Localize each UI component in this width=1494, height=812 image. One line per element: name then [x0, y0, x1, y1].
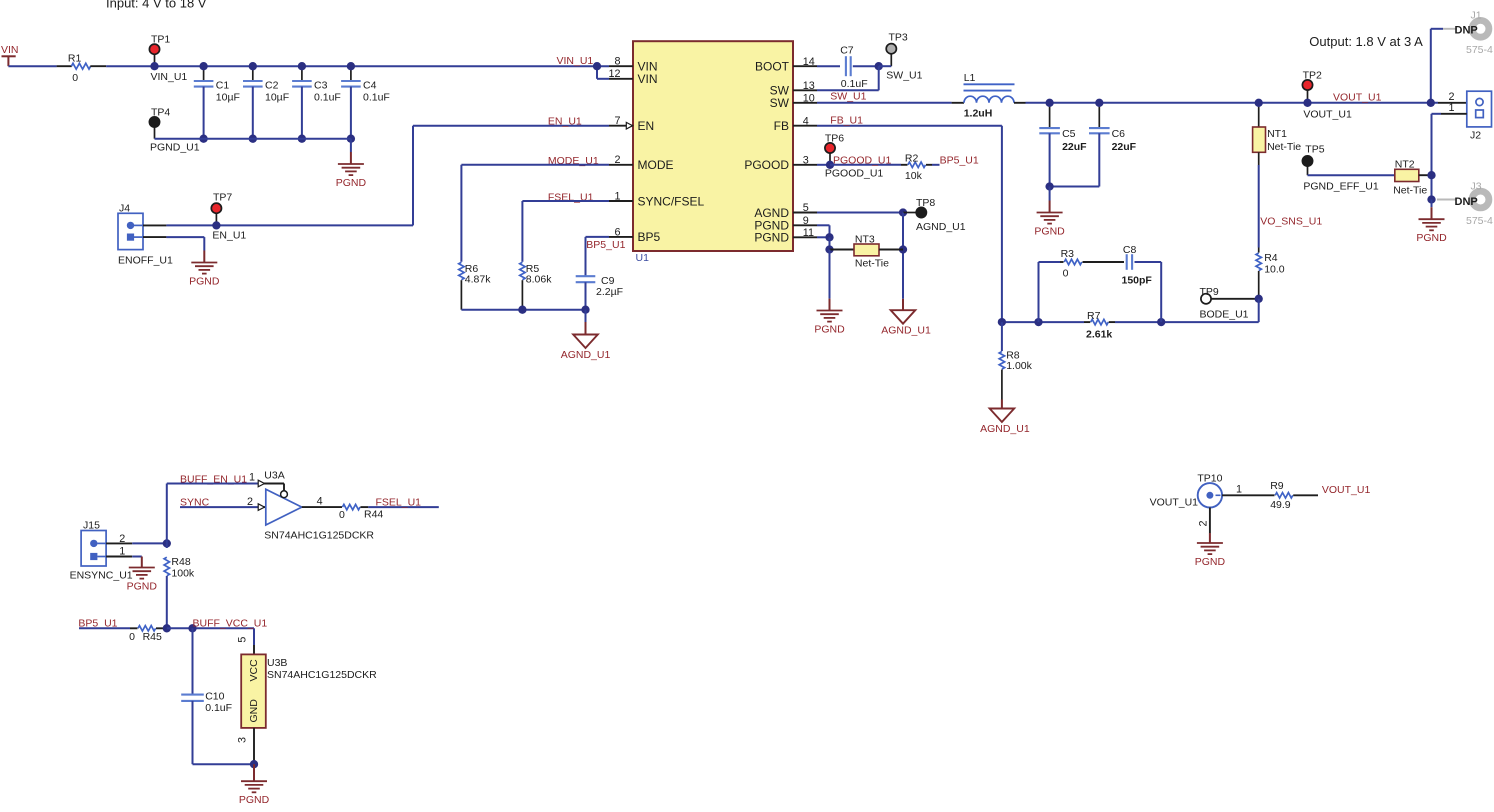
capacitor C6	[1089, 103, 1137, 187]
capacitor C7	[840, 44, 867, 90]
wire J2 pin2 stub	[1438, 102, 1476, 104]
svg-text:1.2uH: 1.2uH	[964, 108, 993, 120]
svg-text:13: 13	[803, 80, 815, 92]
wire U3A output	[302, 496, 342, 508]
resistor R44	[339, 504, 383, 521]
svg-text:PGND: PGND	[239, 794, 270, 806]
junction BUFF_VCC	[188, 624, 196, 632]
U1 pin 11 PGND	[754, 227, 817, 245]
net label VOUT_U1 tp10	[1322, 484, 1371, 496]
net label BUFF_VCC_U1	[193, 618, 268, 630]
junction U3B gnd	[250, 760, 258, 768]
wire C10 gnd	[193, 763, 255, 765]
svg-text:0: 0	[339, 509, 345, 521]
svg-text:J1: J1	[1471, 10, 1482, 22]
IC U1 body	[633, 41, 793, 264]
svg-text:10µF: 10µF	[216, 91, 240, 103]
junction pin12 drop	[593, 62, 601, 70]
net-tie NT3	[830, 234, 904, 270]
svg-text:U3A: U3A	[264, 470, 284, 482]
junction C6 top	[1095, 99, 1103, 107]
svg-text:10k: 10k	[905, 170, 923, 182]
wire SYNC	[180, 506, 266, 508]
svg-text:0.1uF: 0.1uF	[841, 78, 868, 90]
svg-text:R2: R2	[905, 152, 919, 164]
net label FB_U1	[830, 115, 863, 127]
wire FSEL_U1 out	[368, 506, 439, 508]
svg-text:J3: J3	[1471, 181, 1482, 193]
wire PGND pin9	[817, 225, 830, 237]
junction J15	[163, 539, 171, 547]
ground PGND TP10	[1195, 533, 1226, 568]
net label EN_U1	[548, 116, 582, 128]
net label BP5_U1 pgood	[940, 154, 979, 166]
resistor R6	[459, 262, 492, 310]
wire SW drop to pin13	[817, 66, 879, 90]
svg-text:PGOOD_U1: PGOOD_U1	[825, 168, 884, 180]
net label BUFF_EN_U1	[180, 474, 247, 486]
buffer U3A	[264, 470, 374, 542]
svg-text:AGND_U1: AGND_U1	[561, 349, 611, 361]
svg-text:1: 1	[1236, 484, 1242, 496]
svg-text:4: 4	[317, 496, 323, 508]
svg-text:4: 4	[803, 115, 809, 127]
svg-text:9: 9	[803, 215, 809, 227]
resistor R45	[129, 626, 167, 643]
testpoint TP6	[825, 133, 884, 180]
wire R4 to R7 bus	[1161, 299, 1259, 322]
wire BP5 buf	[79, 627, 130, 629]
svg-text:22uF: 22uF	[1062, 141, 1087, 153]
net label SW_U1	[830, 90, 866, 102]
svg-text:FSEL_U1: FSEL_U1	[376, 497, 422, 509]
wire PGOOD	[817, 164, 830, 166]
svg-text:3: 3	[237, 737, 249, 743]
svg-text:11: 11	[803, 227, 814, 239]
U1 pin 3 PGOOD	[744, 154, 817, 172]
U1 pin 5 AGND	[754, 202, 817, 220]
resistor R8	[999, 322, 1032, 399]
svg-text:Output: 1.8 V at 3 A: Output: 1.8 V at 3 A	[1309, 34, 1423, 49]
svg-text:2: 2	[1198, 520, 1210, 526]
U1 pin 8 VIN	[609, 56, 658, 74]
svg-text:R3: R3	[1061, 248, 1075, 260]
svg-text:TP1: TP1	[151, 34, 170, 46]
junction C3 bottom	[298, 135, 306, 143]
U1 pin 10 SW	[770, 92, 817, 110]
junction TP1	[150, 62, 158, 70]
wire TP10 pin1	[1222, 484, 1274, 496]
wire PGND pin11	[817, 236, 830, 238]
svg-text:FB_U1: FB_U1	[830, 115, 863, 127]
capacitor C2	[243, 66, 289, 139]
wire J4 pin2 stub	[143, 224, 166, 226]
svg-text:575-4: 575-4	[1466, 215, 1493, 227]
testpoint TP7	[211, 192, 246, 242]
wire R7 left bus	[1002, 321, 1084, 323]
svg-text:1: 1	[614, 190, 620, 202]
svg-text:VOUT_U1: VOUT_U1	[1150, 497, 1199, 509]
svg-text:5: 5	[237, 637, 249, 643]
svg-text:R44: R44	[364, 509, 383, 521]
svg-text:ENOFF_U1: ENOFF_U1	[118, 255, 173, 267]
svg-text:C5: C5	[1062, 128, 1076, 140]
svg-text:TP10: TP10	[1197, 473, 1222, 485]
svg-text:10µF: 10µF	[265, 91, 289, 103]
svg-text:VO_SNS_U1: VO_SNS_U1	[1260, 216, 1322, 228]
svg-text:0.1uF: 0.1uF	[363, 91, 390, 103]
svg-text:R4: R4	[1264, 252, 1278, 264]
junction NT3 left	[825, 245, 833, 253]
svg-text:0: 0	[129, 631, 135, 643]
svg-text:DNP: DNP	[1455, 196, 1478, 208]
svg-text:1: 1	[119, 545, 125, 557]
svg-text:VOUT_U1: VOUT_U1	[1322, 484, 1371, 496]
svg-text:C2: C2	[265, 80, 279, 92]
svg-text:R7: R7	[1087, 310, 1101, 322]
svg-text:C4: C4	[363, 80, 377, 92]
svg-text:49.9: 49.9	[1270, 499, 1291, 511]
wire BP5 to C9	[586, 237, 610, 276]
note: output rating	[1309, 34, 1423, 49]
ground PGND J3	[1416, 200, 1447, 245]
svg-text:J2: J2	[1470, 130, 1481, 142]
wire to pin 12	[597, 66, 609, 79]
svg-text:PGOOD_U1: PGOOD_U1	[833, 154, 892, 166]
svg-text:TP4: TP4	[151, 107, 170, 119]
svg-text:EN: EN	[638, 119, 655, 133]
connector J15	[70, 520, 133, 582]
svg-text:PGOOD: PGOOD	[744, 158, 789, 172]
svg-text:R48: R48	[171, 556, 190, 568]
svg-text:4.87k: 4.87k	[465, 274, 491, 286]
junction NT3 right	[899, 245, 907, 253]
junction VOUT J1	[1427, 99, 1435, 107]
wire J15 pin2	[106, 542, 167, 544]
capacitor C5	[1039, 103, 1087, 187]
net-tie NT1	[1253, 103, 1302, 165]
testpoint TP3	[879, 32, 923, 82]
inductor L1	[952, 72, 1026, 120]
wire VIN_U1 rail	[106, 65, 609, 67]
svg-text:TP8: TP8	[916, 197, 935, 209]
svg-text:PGND: PGND	[754, 231, 789, 245]
svg-text:C10: C10	[205, 691, 224, 703]
U1 pin 7 EN	[609, 115, 654, 133]
net label VIN_U1 at pin8	[557, 55, 594, 67]
capacitor C1	[194, 66, 240, 139]
svg-text:R9: R9	[1270, 480, 1284, 492]
net label BP5_U1 buf	[78, 618, 117, 630]
svg-text:VCC: VCC	[248, 659, 260, 682]
net label FSEL_U1 out	[376, 497, 422, 509]
power port VIN	[1, 44, 19, 66]
ground AGND_U1 C9	[561, 310, 611, 361]
svg-text:C8: C8	[1123, 244, 1137, 256]
resistor R9	[1270, 480, 1318, 511]
resistor R3	[1060, 248, 1124, 280]
junction TP7	[212, 221, 220, 229]
svg-text:AGND_U1: AGND_U1	[881, 325, 931, 337]
svg-text:1: 1	[1448, 102, 1454, 114]
junction R5 bottom	[518, 306, 526, 314]
wire PGND_U1 bus	[155, 138, 351, 140]
svg-text:8: 8	[614, 56, 620, 68]
svg-text:VOUT_U1: VOUT_U1	[1303, 109, 1352, 121]
svg-text:TP2: TP2	[1303, 70, 1322, 82]
junction C2 bottom	[249, 135, 257, 143]
U3A pin1 marker	[249, 472, 265, 487]
svg-text:PGND_U1: PGND_U1	[150, 142, 200, 154]
svg-text:ENSYNC_U1: ENSYNC_U1	[70, 570, 133, 582]
U1 pin 13 SW	[770, 80, 817, 98]
junction R7 bus right	[1157, 318, 1165, 326]
ground PGND NT3	[814, 250, 845, 336]
wire EN_U1 riser	[413, 126, 609, 226]
testpoint TP9	[1200, 286, 1259, 321]
wire AGND riser	[902, 213, 904, 299]
svg-text:NT2: NT2	[1395, 159, 1415, 171]
svg-text:PGND: PGND	[1195, 556, 1226, 568]
svg-text:2.2µF: 2.2µF	[596, 286, 623, 298]
junction C4 top	[347, 62, 355, 70]
wire PGOOD to R2	[830, 164, 901, 166]
svg-text:U3B: U3B	[267, 657, 287, 669]
svg-text:BP5: BP5	[638, 230, 661, 244]
svg-text:R45: R45	[143, 631, 162, 643]
wire BOOT	[817, 65, 840, 67]
U1 pin 9 PGND	[754, 215, 817, 233]
svg-text:1: 1	[249, 472, 255, 484]
resistor R4	[1256, 248, 1285, 299]
junction TP9	[1255, 295, 1263, 303]
net label MODE_U1	[548, 155, 599, 167]
wire AGND bus R5R6C9	[461, 309, 585, 311]
junction pin11	[825, 233, 833, 241]
svg-text:TP7: TP7	[213, 192, 232, 204]
capacitor C10	[181, 628, 232, 764]
svg-text:TP3: TP3	[889, 32, 908, 44]
IC U3B body	[241, 654, 377, 728]
svg-text:R1: R1	[68, 53, 82, 65]
testpoint TP8	[903, 197, 966, 233]
J15 pin numbers	[119, 533, 125, 557]
wire FSEL riser	[522, 201, 609, 262]
wire J2 pin1	[1432, 114, 1467, 200]
svg-text:PGND: PGND	[1416, 232, 1447, 244]
wire J1 riser	[1431, 29, 1443, 103]
wire VIN to R1	[8, 65, 56, 67]
svg-text:SYNC/FSEL: SYNC/FSEL	[638, 194, 705, 208]
net label PGOOD_U1	[833, 154, 892, 166]
svg-text:5: 5	[803, 202, 809, 214]
junction TP2	[1303, 99, 1311, 107]
svg-text:Net-Tie: Net-Tie	[1393, 185, 1427, 197]
connector J3 DNP	[1437, 181, 1493, 227]
net label BP5_U1 at pin6	[586, 239, 625, 251]
resistor R5	[520, 262, 553, 310]
connector J1 DNP	[1443, 10, 1493, 57]
svg-text:1.00k: 1.00k	[1006, 360, 1032, 372]
testpoint TP10	[1150, 473, 1223, 509]
testpoint TP4	[149, 107, 199, 154]
svg-text:2: 2	[614, 154, 620, 166]
U3B pin5 stub	[237, 637, 254, 654]
ground AGND_U1 R8	[980, 400, 1030, 436]
svg-text:7: 7	[614, 115, 620, 127]
ground PGND J15	[127, 557, 158, 593]
svg-text:C1: C1	[216, 80, 230, 92]
wire BUFF_EN riser	[166, 484, 168, 544]
svg-text:BP5_U1: BP5_U1	[940, 154, 979, 166]
svg-text:SW: SW	[770, 96, 790, 110]
svg-text:TP5: TP5	[1305, 144, 1324, 156]
resistor R48	[164, 543, 195, 628]
junction C5 bottom	[1045, 182, 1053, 190]
wire J4 pin1 to gnd	[166, 237, 204, 250]
testpoint TP1	[149, 34, 187, 83]
resistor R7	[1084, 310, 1161, 341]
net label VO_SNS_U1	[1260, 216, 1322, 228]
svg-text:NT1: NT1	[1267, 128, 1287, 140]
svg-text:C7: C7	[840, 44, 854, 56]
U1 pin 4 FB	[774, 115, 817, 133]
U3A pin2 marker	[247, 496, 265, 510]
svg-text:BODE_U1: BODE_U1	[1200, 309, 1249, 321]
wire BUFF_EN	[167, 484, 284, 491]
junction FB divider	[998, 318, 1006, 326]
wire AGND pin5	[817, 212, 903, 214]
U1 pin 2 MODE	[609, 154, 674, 172]
U1 pin 1 SYNC/FSEL	[609, 190, 705, 208]
capacitor C8	[1122, 244, 1153, 287]
svg-text:2: 2	[247, 496, 253, 508]
ground PGND output caps	[1034, 187, 1065, 238]
wire J15 pin1 gnd	[106, 556, 142, 558]
svg-text:3: 3	[803, 154, 809, 166]
svg-text:SN74AHC1G125DCKR: SN74AHC1G125DCKR	[267, 669, 377, 681]
U3B pin3 stub	[237, 728, 254, 764]
ground AGND_U1 NT3	[881, 299, 931, 337]
svg-text:0.1uF: 0.1uF	[205, 702, 232, 714]
svg-text:PGND: PGND	[1034, 226, 1065, 238]
junction NT1 top	[1255, 99, 1263, 107]
svg-text:VIN: VIN	[1, 44, 19, 56]
connector J4	[118, 203, 173, 267]
wire EN_U1 from J4	[166, 224, 413, 226]
svg-text:SW_U1: SW_U1	[886, 70, 922, 82]
ground PGND input caps	[336, 139, 367, 189]
svg-text:Input: 4 V to 18 V: Input: 4 V to 18 V	[106, 0, 207, 11]
svg-text:NT3: NT3	[855, 234, 875, 246]
svg-text:FB: FB	[774, 119, 789, 133]
capacitor C9	[576, 275, 623, 310]
junction NT2	[1427, 171, 1435, 179]
wire R2 right	[932, 164, 940, 166]
svg-text:100k: 100k	[171, 568, 195, 580]
wire TP5 to NT2	[1308, 174, 1395, 176]
connector J2	[1467, 91, 1492, 141]
svg-text:10: 10	[803, 92, 815, 104]
wire VO_SNS_U1	[1258, 165, 1260, 248]
testpoint TP5	[1302, 144, 1378, 193]
svg-text:12: 12	[608, 68, 620, 80]
net label FSEL_U1 at pin1	[548, 192, 594, 204]
svg-text:C6: C6	[1112, 128, 1126, 140]
wire C5 C6 gnd bus	[1050, 186, 1100, 188]
wire SW_U1 run	[817, 102, 952, 104]
ground PGND U3B	[239, 764, 270, 806]
svg-text:6: 6	[614, 226, 620, 238]
svg-text:BP5_U1: BP5_U1	[586, 239, 625, 251]
net label VOUT_U1	[1333, 92, 1382, 104]
svg-text:PGND_EFF_U1: PGND_EFF_U1	[1303, 181, 1378, 193]
svg-text:150pF: 150pF	[1122, 275, 1153, 287]
net-tie NT2	[1393, 159, 1431, 197]
svg-text:TP6: TP6	[825, 133, 844, 145]
wire MODE riser	[461, 165, 609, 262]
svg-text:10.0: 10.0	[1264, 263, 1285, 275]
junction C1 top	[199, 62, 207, 70]
wire R3C8 branch left	[1039, 262, 1061, 322]
capacitor C3	[292, 66, 341, 139]
junction C4 bottom	[347, 135, 355, 143]
svg-text:EN_U1: EN_U1	[212, 230, 246, 242]
junction R7 bus left	[1034, 318, 1042, 326]
junction C9 bottom	[581, 306, 589, 314]
wire R3C8 branch right	[1135, 262, 1162, 322]
wire J4 pin1 stub	[143, 236, 166, 238]
junction R45 right	[163, 624, 171, 632]
svg-text:GND: GND	[248, 699, 260, 723]
svg-text:8.06k: 8.06k	[526, 274, 552, 286]
svg-text:14: 14	[803, 56, 815, 68]
wire BUFF_VCC	[167, 628, 254, 645]
U1 pin 6 BP5	[609, 226, 661, 244]
svg-text:VOUT_U1: VOUT_U1	[1333, 92, 1382, 104]
wire TP10 pin2	[1198, 508, 1210, 534]
net label SYNC	[180, 497, 210, 509]
svg-text:SN74AHC1G125DCKR: SN74AHC1G125DCKR	[264, 529, 374, 541]
svg-text:L1: L1	[964, 72, 976, 84]
svg-text:PGND: PGND	[127, 581, 158, 593]
junction C2 top	[249, 62, 257, 70]
svg-text:DNP: DNP	[1455, 25, 1478, 37]
junction C1 bottom	[199, 135, 207, 143]
wire C7 to SW node	[853, 65, 879, 67]
svg-text:MODE: MODE	[638, 158, 674, 172]
svg-text:0: 0	[72, 72, 78, 84]
ground PGND J4	[189, 251, 220, 288]
note: input voltage	[106, 0, 207, 11]
svg-text:TP9: TP9	[1200, 286, 1219, 298]
svg-text:BUFF_VCC_U1: BUFF_VCC_U1	[193, 618, 268, 630]
wire PGND drop	[829, 237, 831, 249]
svg-text:AGND_U1: AGND_U1	[916, 221, 966, 233]
svg-text:575-4: 575-4	[1466, 44, 1493, 56]
resistor R1	[57, 53, 107, 85]
svg-text:U1: U1	[636, 252, 650, 264]
svg-text:C3: C3	[314, 80, 328, 92]
junction C5 top	[1045, 99, 1053, 107]
resistor R2	[901, 152, 932, 182]
capacitor C4	[341, 66, 390, 139]
junction C3 top	[298, 62, 306, 70]
svg-text:AGND_U1: AGND_U1	[980, 423, 1030, 435]
svg-text:22uF: 22uF	[1112, 141, 1137, 153]
wire FB_U1	[817, 126, 1002, 322]
junction TP8	[899, 208, 907, 216]
